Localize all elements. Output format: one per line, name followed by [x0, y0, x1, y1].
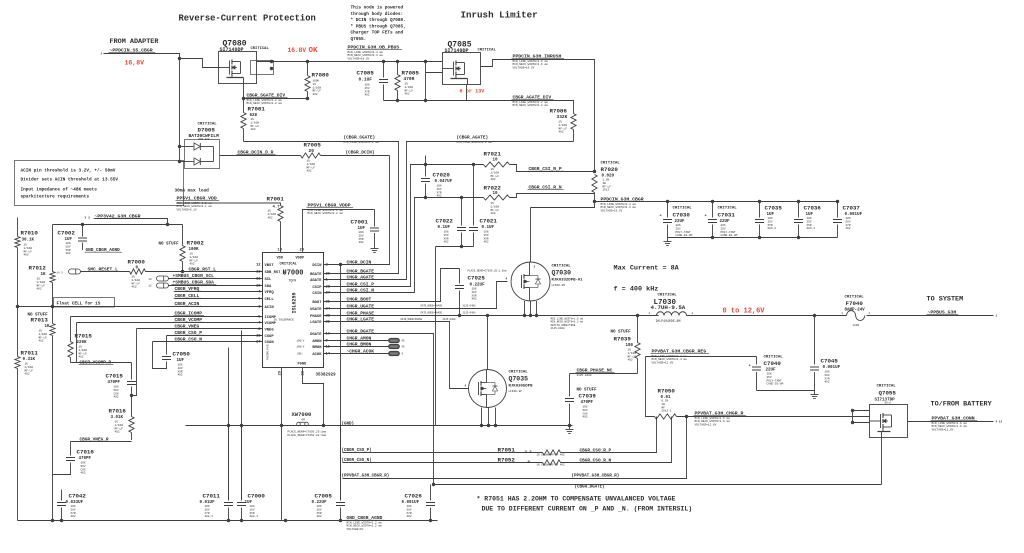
capacitor C7001: [370, 210, 379, 245]
resistor R7020: [592, 175, 597, 202]
ground cap bank: [664, 238, 672, 246]
label Max Current = 8A: [614, 265, 680, 273]
svg-text:1/16W: 1/16W: [405, 85, 414, 89]
wire cell row: [175, 298, 263, 300]
label R7011 values: [21, 350, 39, 376]
svg-text:1K: 1K: [41, 273, 47, 277]
svg-text:CSIP: CSIP: [312, 286, 322, 290]
wire battery out: [908, 421, 994, 423]
svg-text:DCIN: DCIN: [312, 264, 322, 268]
net (CBGR_AGATE): [457, 136, 493, 144]
svg-text:402-1: 402-1: [205, 515, 214, 518]
label R7015 values: [75, 333, 93, 359]
junction C7020 bottom: [424, 196, 427, 199]
svg-text:10: 10: [493, 159, 499, 163]
net CBGR_ICOMP: [174, 311, 205, 317]
svg-text:PLACE_NEAR=C7050.22:1mm: PLACE_NEAR=C7050.22:1mm: [288, 434, 327, 437]
net GND_CBGR_AGND: [346, 515, 385, 531]
svg-text:CRITICAL: CRITICAL: [251, 47, 270, 51]
pin stub 1: [101, 53, 103, 56]
svg-text:CRITICAL: CRITICAL: [673, 207, 693, 211]
junction C7035 bottom: [758, 236, 761, 239]
svg-text:(PPVBAT_G3H_CBGR_R): (PPVBAT_G3H_CBGR_R): [342, 474, 390, 479]
junction q7035 drain phase: [486, 314, 489, 317]
note phase width rules: [551, 318, 584, 331]
net CHGR_PHASE: [346, 310, 377, 316]
junction acin r7012: [51, 305, 54, 308]
wire csip riser: [324, 165, 426, 287]
svg-text:0M: 0M: [302, 418, 306, 421]
connector stub SDA: [149, 283, 169, 288]
resistor R7081: [241, 99, 246, 142]
svg-text:2512: 2512: [603, 189, 610, 192]
connector stub SMC_RESET_L: [57, 269, 81, 275]
wire pbus out: [867, 315, 994, 317]
capacitor C7035: [755, 202, 764, 238]
net CBGR_CSI_R_P: [528, 166, 564, 172]
svg-text:402: 402: [317, 515, 322, 518]
svg-text:VFRQ: VFRQ: [265, 291, 275, 295]
net CBGR_VCOMP: [174, 317, 205, 323]
wire adapter input: [104, 54, 219, 68]
capacitor C7025: [455, 269, 464, 316]
svg-text:1/16W: 1/16W: [24, 246, 33, 250]
svg-text:10: 10: [149, 278, 153, 281]
svg-text:TO SYSTEM: TO SYSTEM: [927, 296, 964, 304]
svg-text:CRITICAL: CRITICAL: [718, 207, 738, 211]
svg-text:11: 11: [256, 278, 261, 282]
svg-text:20: 20: [309, 148, 315, 154]
svg-text:0.047UF: 0.047UF: [435, 180, 453, 184]
wire r7039 riser: [637, 316, 639, 343]
svg-text:MIN_NECK_WIDTH=0.2 mm: MIN_NECK_WIDTH=0.2 mm: [308, 212, 344, 215]
svg-text:1/16W: 1/16W: [559, 123, 568, 127]
label TO SYSTEM: [927, 296, 964, 304]
svg-text:402: 402: [71, 515, 76, 518]
svg-text:CSOP: CSOP: [265, 335, 275, 339]
resistor R7012: [50, 225, 55, 307]
svg-text:C7085: C7085: [357, 70, 375, 77]
svg-text:VOLTAGE=12.6V: VOLTAGE=12.6V: [695, 423, 717, 426]
wire c7040 c7045 gnd: [757, 390, 815, 392]
svg-text:402: 402: [25, 373, 30, 376]
wire Q7080 source bottom: [243, 84, 245, 99]
junction gate riser bottom: [424, 99, 427, 102]
svg-text:4.7UH-9.5A: 4.7UH-9.5A: [651, 304, 686, 311]
svg-text:C7020: C7020: [433, 172, 451, 179]
svg-text:1206: 1206: [853, 324, 860, 327]
svg-text:402: 402: [39, 340, 44, 343]
wire vcomp r row: [71, 362, 132, 364]
label R7010 values: [21, 230, 39, 257]
junction Q7030 s1: [523, 314, 526, 317]
capacitor C7011: [224, 426, 233, 521]
svg-text:12: 12: [256, 264, 261, 268]
svg-text:VNEG: VNEG: [265, 329, 275, 333]
junction Q7080 drain b: [270, 67, 273, 70]
junction Q7030 s3: [535, 314, 538, 317]
capacitor C7026: [426, 485, 435, 521]
svg-text:402: 402: [313, 93, 318, 96]
fuse F7040: [847, 311, 865, 321]
svg-text:402: 402: [583, 416, 588, 419]
wire dcin d r: [220, 155, 301, 157]
svg-text:C7021: C7021: [480, 218, 498, 225]
resistor R7016: [129, 396, 134, 441]
svg-text:9.31K: 9.31K: [23, 358, 36, 362]
label R7050 values: [658, 388, 676, 413]
wire pp3v42 label stub: [95, 219, 168, 225]
label C7001 values: [351, 219, 369, 245]
label Q7080: [223, 40, 247, 49]
junction C7000 gnd: [240, 519, 243, 522]
svg-text:SI7149DP: SI7149DP: [445, 48, 469, 54]
svg-text:This node is powered: This node is powered: [351, 6, 404, 11]
label R7081 values: [248, 106, 266, 132]
svg-text:AMON: AMON: [312, 340, 322, 344]
junction c7045 bus: [813, 314, 816, 317]
capacitor C7031: [708, 202, 717, 238]
net PPDCIN_G3H_INRUSH: [512, 54, 565, 70]
svg-text:R7052: R7052: [498, 457, 516, 464]
svg-text:C7050: C7050: [173, 351, 191, 358]
svg-text:1/16W: 1/16W: [491, 170, 500, 174]
pin q7035 gate: [465, 385, 467, 388]
svg-text:UGATE: UGATE: [310, 308, 322, 312]
svg-text:402: 402: [81, 472, 86, 475]
label C7040 values: [764, 356, 784, 386]
monitor stubs AMON BMON ACOK: [297, 338, 406, 356]
wire vcomp row: [77, 322, 263, 324]
svg-text:4: 4: [506, 278, 508, 281]
net CHGR_AMON: [346, 335, 374, 341]
svg-text:1/16W: 1/16W: [628, 351, 637, 355]
label R7013 values: [28, 314, 51, 343]
wire bottom gnd rail: [18, 520, 438, 522]
svg-text:1/16W: 1/16W: [251, 120, 260, 124]
label C7026 values: [402, 493, 423, 519]
wire agate row: [324, 142, 574, 280]
svg-text:F7040: F7040: [846, 300, 864, 307]
svg-text:3% TOLERANCE: 3% TOLERANCE: [274, 319, 294, 322]
svg-text:SDB_RST_N: SDB_RST_N: [265, 271, 286, 275]
svg-text:R7080: R7080: [312, 72, 330, 79]
wire adapter to diodes: [179, 59, 181, 162]
label C7016 values: [77, 449, 95, 475]
polarity marks C7030 C7031: [660, 215, 707, 219]
wire boot riser: [324, 269, 460, 302]
svg-text:CRITICAL: CRITICAL: [509, 371, 529, 375]
svg-text:18: 18: [256, 335, 261, 339]
svg-text:R7021: R7021: [484, 151, 502, 158]
wire sgate row: [244, 142, 399, 274]
svg-text:R7002: R7002: [187, 240, 205, 247]
net PPVBAT_G3H_CBGR_REG: [651, 349, 710, 365]
junction C7005 gnd: [339, 519, 342, 522]
junction acin r7010: [16, 305, 19, 308]
svg-text:ACIN pin threshold is 3.2V, +/: ACIN pin threshold is 3.2V, +/- 50mV: [21, 169, 116, 174]
svg-text:16.8V: 16.8V: [288, 47, 307, 54]
junction acin r7013: [51, 305, 54, 308]
svg-text:C7016: C7016: [77, 449, 95, 456]
svg-text:R7000: R7000: [128, 259, 146, 266]
note gate rule lgate: [401, 318, 456, 321]
svg-text:402: 402: [178, 374, 183, 377]
wire rst row: [146, 271, 263, 273]
svg-text:402: 402: [307, 170, 312, 173]
svg-text:C7005: C7005: [315, 493, 333, 500]
wire Q7055 left pins: [853, 411, 870, 423]
junction c7039 gnd: [568, 424, 571, 427]
svg-text:CSON: CSON: [265, 341, 275, 345]
net ~PPDCIN_S5_CBGR: [109, 48, 156, 54]
svg-text:CASE-D2-8M: CASE-D2-8M: [676, 234, 693, 237]
junction C7026 gnd: [429, 519, 432, 522]
svg-text:R7050: R7050: [658, 388, 676, 395]
svg-text:Q7030: Q7030: [552, 270, 572, 277]
junction C7035 top: [758, 200, 761, 203]
label C7039 values: [577, 389, 598, 419]
wire Q7030 source pins: [524, 301, 526, 316]
transistor Q7080: [219, 52, 274, 84]
junction x167: [166, 223, 169, 226]
label C7042 values: [66, 493, 87, 519]
label f = 400 kHz: [614, 286, 659, 294]
wire reg to r7050: [646, 357, 655, 417]
svg-text:CASE-D2-8M: CASE-D2-8M: [767, 383, 784, 386]
svg-text:26: 26: [326, 273, 331, 277]
junction R7085 bottom: [396, 99, 399, 102]
svg-text:CRITICAL: CRITICAL: [877, 385, 897, 389]
label C7022 values: [436, 218, 454, 244]
net CHGR_AGATE: [346, 274, 377, 280]
title Inrush Limiter: [461, 10, 538, 21]
svg-text:CRITICAL: CRITICAL: [601, 162, 621, 166]
junction c7015 r7016: [130, 394, 133, 397]
svg-text:C7011: C7011: [203, 493, 221, 500]
wire q7035 drain: [487, 316, 489, 370]
svg-text:Max Current = 8A: Max Current = 8A: [614, 265, 680, 273]
svg-text:VOLTAGE=12.6V: VOLTAGE=12.6V: [652, 361, 674, 364]
junction q7035 s1: [480, 424, 483, 427]
capacitor C7039 NO STUFF: [565, 374, 574, 426]
junction C7011 gnd: [227, 519, 230, 522]
svg-text:C7037: C7037: [843, 205, 861, 212]
svg-text:through body diodes:: through body diodes:: [351, 12, 404, 17]
svg-text:C7000: C7000: [248, 493, 266, 500]
wire csi n row: [426, 197, 484, 199]
svg-text:1/16W: 1/16W: [37, 280, 46, 284]
capacitor C7005: [336, 426, 345, 521]
svg-text:AGATE: AGATE: [310, 279, 322, 283]
wire icomp row: [71, 316, 263, 318]
net ~CHGR_ACOK: [346, 348, 377, 354]
svg-text:C7001: C7001: [351, 219, 369, 226]
junction R7020 top: [593, 170, 596, 173]
junction C7002 top: [81, 223, 84, 226]
svg-text:D7005: D7005: [198, 127, 216, 134]
IC U7000 ISL6259 box: [263, 253, 324, 368]
svg-text:R7085: R7085: [402, 70, 420, 77]
polarity mark C7040: [749, 365, 751, 369]
svg-text:0.1UF: 0.1UF: [482, 226, 495, 230]
svg-text:RJK0332DPB-01: RJK0332DPB-01: [552, 279, 584, 283]
net ~PPBUS_G3H: [927, 310, 959, 316]
U7000 right pin names and numbers: [310, 264, 331, 357]
svg-text:C7025: C7025: [468, 275, 486, 282]
svg-text:470PF: 470PF: [108, 381, 121, 385]
resistor R7085: [395, 62, 400, 101]
transistor Q7085: [443, 53, 481, 85]
junction c7011 top: [227, 424, 230, 427]
label C7020 values: [433, 172, 453, 198]
svg-text:2: 2: [534, 266, 536, 269]
wire c7000 riser: [241, 331, 243, 501]
svg-text:GATE_NODE=PHASE: GATE_NODE=PHASE: [401, 318, 423, 321]
net PP5V1_CBGR_VDDP: [307, 203, 354, 216]
capacitor C7000: [237, 426, 246, 521]
svg-text:3.01K: 3.01K: [111, 416, 124, 420]
wire scl row: [169, 278, 263, 280]
wire vfrq row: [175, 291, 263, 293]
svg-text:+: +: [660, 215, 662, 219]
junction C7085 top: [382, 60, 385, 63]
capacitor C7042: [57, 490, 66, 521]
wire ugate row: [324, 282, 508, 309]
svg-text:470R: 470R: [404, 76, 415, 82]
svg-text:R7051: R7051: [498, 447, 516, 454]
junction C7021 top: [472, 163, 475, 166]
svg-text:(PPVBAT_G3H_CBGR_R): (PPVBAT_G3H_CBGR_R): [572, 474, 620, 479]
junction pin29 gnd: [284, 519, 287, 522]
junction c7000 top: [240, 424, 243, 427]
net CBGR_AGATE_DIV: [512, 95, 554, 108]
net (PPVBAT_G3H_CBGR_R): [342, 474, 390, 479]
junction R7002 bottom: [181, 270, 184, 273]
capacitor C7085: [379, 62, 388, 101]
wire dcin to riser: [321, 155, 390, 157]
net CBGR_CSO_P: [174, 330, 205, 336]
label C7000 values: [245, 493, 266, 519]
svg-text:332K: 332K: [557, 114, 568, 120]
wire agate div: [454, 101, 574, 114]
svg-text:1/16W: 1/16W: [39, 332, 48, 336]
net (CBGR_SGATE): [344, 136, 380, 144]
resistor R7011: [15, 307, 20, 521]
wire vcomp riser: [76, 323, 78, 363]
net (CBGR_DCIN): [346, 151, 375, 156]
svg-text:SI7149DP: SI7149DP: [220, 47, 244, 53]
svg-text:(OD): (OD): [297, 352, 304, 356]
svg-text:SCL: SCL: [265, 278, 273, 282]
svg-text:C7022: C7022: [436, 218, 454, 225]
svg-text:470PF: 470PF: [79, 457, 92, 461]
svg-text:C7042: C7042: [69, 493, 87, 500]
svg-text:CSIN: CSIN: [312, 292, 322, 296]
svg-text:C7039: C7039: [579, 393, 597, 400]
label C7030 values: [673, 207, 693, 238]
pin stub pbus: [996, 315, 998, 318]
junction R7080 top: [306, 60, 309, 63]
wire vneg r row: [71, 441, 132, 443]
resistor R7013 NO STUFF: [50, 307, 55, 521]
svg-text:IHLP4040DE-8M: IHLP4040DE-8M: [656, 319, 681, 323]
svg-text:C7015: C7015: [106, 373, 124, 380]
junction C7036 bottom: [797, 236, 800, 239]
capacitor C7050: [153, 336, 172, 369]
svg-text:MIN_NECK_WIDTH=0.2 mm: MIN_NECK_WIDTH=0.2 mm: [513, 104, 549, 107]
label Q7035: [509, 371, 534, 394]
svg-text:1% 1/16W MF-LF 402: 1% 1/16W MF-LF 402: [537, 453, 565, 457]
svg-text:CRITICAL: CRITICAL: [552, 265, 572, 269]
svg-text:402: 402: [491, 212, 496, 215]
svg-text:Charger TOP FETs and: Charger TOP FETs and: [351, 31, 404, 36]
svg-text:402: 402: [365, 94, 370, 97]
net CHGR_LGATE: [346, 316, 377, 322]
net CHGR_BMON: [346, 341, 374, 347]
net CBGR_DCIN_D_R: [237, 150, 276, 156]
label 30mA max load: [175, 189, 210, 194]
svg-text:CRITICAL: CRITICAL: [845, 296, 865, 300]
svg-text:1/16W: 1/16W: [307, 162, 316, 166]
svg-text:THERM_PAD: THERM_PAD: [267, 344, 270, 360]
net SMC_RESET_L: [87, 267, 120, 273]
svg-text:13: 13: [256, 271, 261, 275]
svg-text:R7010: R7010: [21, 230, 39, 237]
net (CBGR_DGATE): [575, 485, 605, 490]
capacitor C7015: [127, 363, 136, 396]
junction R7085 top: [396, 60, 399, 63]
svg-text:CRITICAL: CRITICAL: [478, 49, 497, 53]
svg-text:LFPAK-8P: LFPAK-8P: [509, 390, 523, 393]
svg-text:2125-0408: 2125-0408: [463, 305, 476, 308]
svg-text:VOLTAGE=16.5V: VOLTAGE=16.5V: [513, 66, 535, 69]
label FROM ADAPTER: [110, 38, 160, 46]
svg-text:402: 402: [268, 216, 273, 219]
label R7021 values: [484, 151, 502, 182]
wire Q7030 drain feed: [531, 202, 595, 208]
svg-text:VDD: VDD: [277, 257, 284, 261]
net CBGR_VNEG: [174, 324, 202, 330]
svg-text:Reverse-Current Protection: Reverse-Current Protection: [179, 14, 316, 24]
svg-text:0.1UF: 0.1UF: [359, 77, 373, 83]
wire vdd rail: [177, 203, 281, 206]
capacitor C7045: [810, 316, 819, 391]
svg-text:* PBUS through Q7085,: * PBUS through Q7085,: [351, 24, 406, 29]
label R7020 values: [601, 162, 621, 192]
label C7011 values: [200, 493, 221, 519]
junction C7036 top: [797, 200, 800, 203]
net CBGR_CSO_R_N: [579, 459, 614, 464]
svg-text:1: 1: [101, 53, 103, 56]
label R7001 values: [267, 196, 285, 220]
svg-text:Input impedance of ~48K meets: Input impedance of ~48K meets: [21, 188, 98, 193]
label XW7000: [288, 411, 327, 437]
note Float CELL box: [54, 298, 115, 308]
svg-text:402: 402: [115, 431, 120, 434]
svg-text:402: 402: [79, 356, 84, 359]
svg-text:402: 402: [491, 178, 496, 181]
net (PPVBAT_G3H_CBGR_R) right: [572, 474, 620, 479]
wire csin riser: [324, 198, 426, 293]
junction vbat r: [685, 415, 688, 418]
resistor R7086: [571, 114, 576, 142]
diode D7005 dual BAT30CWFILM: [180, 140, 220, 169]
svg-text:45: 45: [402, 340, 406, 343]
junction c7025 phase: [458, 314, 461, 317]
net PPVBAT_G3H_CHGR_R: [694, 411, 747, 427]
svg-text:R7020: R7020: [601, 166, 619, 173]
